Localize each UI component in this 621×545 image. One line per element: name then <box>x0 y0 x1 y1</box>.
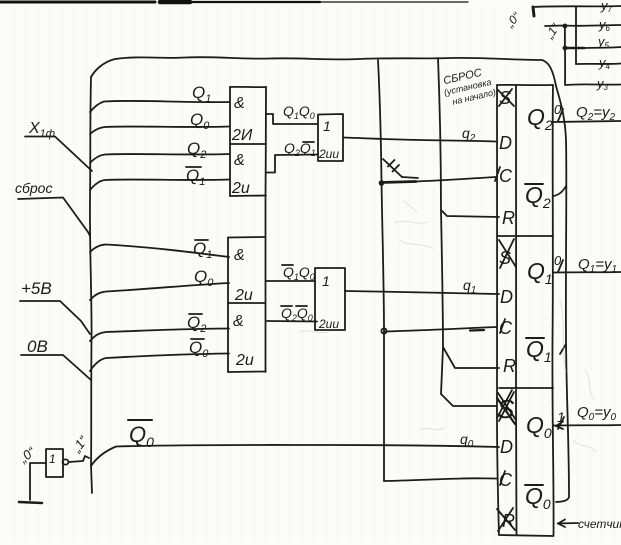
svg-text:C: C <box>499 166 513 186</box>
svg-text:&: & <box>234 95 245 112</box>
svg-text:2и: 2и <box>231 180 250 197</box>
svg-text:R: R <box>503 356 516 376</box>
svg-text:у6: у6 <box>598 17 611 33</box>
svg-text:1: 1 <box>322 273 330 289</box>
svg-text:0В: 0В <box>27 337 48 356</box>
svg-text:„1“: „1“ <box>68 433 91 456</box>
svg-text:Q1Q0: Q1Q0 <box>283 103 315 121</box>
svg-text:Q0: Q0 <box>190 110 210 132</box>
svg-text:Q1: Q1 <box>192 83 211 105</box>
svg-text:Q0: Q0 <box>525 483 551 512</box>
svg-text:Q0: Q0 <box>194 267 214 289</box>
svg-text:+5В: +5В <box>21 279 52 298</box>
svg-text:2и: 2и <box>234 287 253 304</box>
svg-text:Q1Q0: Q1Q0 <box>283 264 315 282</box>
svg-text:у3: у3 <box>596 76 609 92</box>
svg-text:Q2=у2: Q2=у2 <box>576 104 616 123</box>
svg-text:Q2Q0: Q2Q0 <box>281 305 313 323</box>
svg-text:D: D <box>499 133 512 153</box>
svg-text:Q1: Q1 <box>527 258 553 287</box>
svg-text:Q1=у1: Q1=у1 <box>578 256 617 275</box>
svg-text:Q2: Q2 <box>187 139 206 161</box>
svg-text:&: & <box>233 313 244 330</box>
svg-text:счетчик: счетчик <box>578 517 621 531</box>
svg-text:„1“: „1“ <box>542 20 563 42</box>
svg-text:R: R <box>502 208 515 228</box>
svg-text:&: & <box>234 152 245 169</box>
svg-text:Q2: Q2 <box>187 313 206 335</box>
svg-text:„0“: „0“ <box>502 9 524 31</box>
svg-text:Q1: Q1 <box>186 166 205 188</box>
svg-text:Q1: Q1 <box>526 336 552 365</box>
svg-text:Q0: Q0 <box>129 422 154 450</box>
svg-text:Q1: Q1 <box>193 239 212 261</box>
svg-text:q0: q0 <box>460 431 474 450</box>
svg-text:&: & <box>234 247 245 264</box>
svg-text:у4: у4 <box>598 55 611 71</box>
svg-text:D: D <box>500 287 513 307</box>
svg-text:Q0: Q0 <box>526 412 552 441</box>
svg-text:у5: у5 <box>597 34 610 50</box>
svg-text:1: 1 <box>49 452 56 466</box>
svg-text:2ии: 2ии <box>318 317 339 331</box>
svg-text:1: 1 <box>323 118 331 134</box>
svg-text:сброс: сброс <box>15 180 52 196</box>
svg-text:2И: 2И <box>231 127 253 144</box>
svg-text:2ии: 2ии <box>318 147 339 161</box>
svg-text:Q2: Q2 <box>525 182 551 211</box>
svg-text:Q0=у0: Q0=у0 <box>577 404 617 423</box>
svg-text:Q2: Q2 <box>527 104 553 133</box>
svg-text:D: D <box>500 437 513 457</box>
svg-text:у7: у7 <box>600 0 613 14</box>
svg-text:2и: 2и <box>235 352 254 369</box>
